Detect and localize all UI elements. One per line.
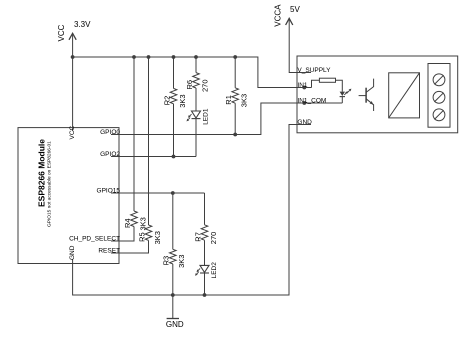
svg-text:R1: R1 [224,95,233,105]
svg-text:5V: 5V [290,5,300,14]
svg-text:270: 270 [200,79,209,92]
svg-text:GND: GND [297,119,312,126]
svg-text:GND: GND [166,320,184,329]
svg-text:IN1_COM: IN1_COM [297,97,326,104]
svg-text:R5: R5 [137,232,146,242]
svg-text:R3: R3 [162,256,171,266]
svg-text:R6: R6 [185,80,194,90]
svg-text:VCC: VCC [57,24,66,41]
svg-text:LED2: LED2 [211,262,218,279]
svg-text:3K3: 3K3 [178,94,187,107]
svg-text:R2: R2 [162,96,171,106]
svg-text:VCCA: VCCA [274,4,283,27]
svg-text:3K3: 3K3 [240,94,249,107]
svg-text:GPIO15: GPIO15 [97,187,121,194]
svg-text:VCC: VCC [69,125,76,139]
svg-text:LED1: LED1 [203,108,210,125]
svg-text:GPIO0: GPIO0 [100,129,120,136]
svg-text:CH_PD_SELECT: CH_PD_SELECT [69,235,120,242]
svg-text:ESP8266 Module: ESP8266 Module [37,139,47,207]
svg-text:V_SUPPLY: V_SUPPLY [297,67,331,74]
svg-text:3.3V: 3.3V [74,20,91,29]
svg-text:GND: GND [69,245,76,260]
svg-text:3K3: 3K3 [177,255,186,268]
svg-text:GPIO2: GPIO2 [100,151,120,158]
svg-text:IN1: IN1 [297,82,308,89]
svg-text:R7: R7 [193,232,202,242]
svg-text:3K3: 3K3 [153,231,162,244]
svg-text:RESET: RESET [98,247,120,254]
svg-text:GPIO15 not accessable on ESP82: GPIO15 not accessable on ESP8266-01 [47,141,53,227]
svg-text:270: 270 [209,232,218,245]
svg-text:R4: R4 [123,218,132,228]
